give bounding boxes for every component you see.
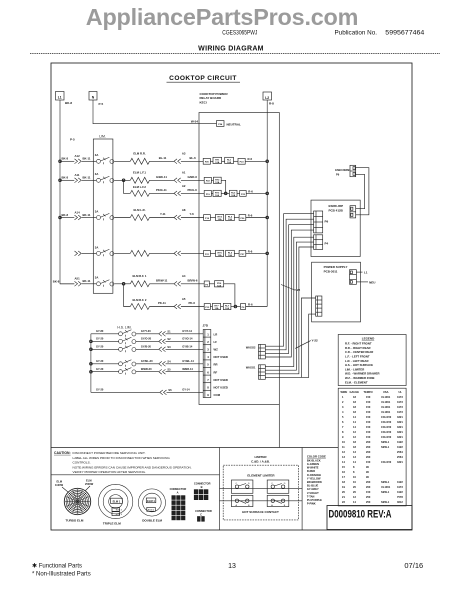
svg-text:T-TAN: T-TAN: [307, 494, 315, 498]
connector C: [195, 509, 212, 522]
svg-text:LEGEND: LEGEND: [362, 336, 375, 340]
svg-text:12A: 12A: [218, 254, 222, 257]
wire P9-3 to WAGO2-3: [265, 225, 313, 354]
svg-text:11: 11: [342, 445, 345, 449]
svg-text:ESEC30WB: ESEC30WB: [335, 168, 349, 172]
svg-text:Y-11: Y-11: [160, 212, 166, 216]
svg-text:14: 14: [353, 500, 356, 504]
caution area right border: [219, 448, 221, 531]
connector A: [170, 487, 187, 520]
svg-text:4: 4: [342, 410, 344, 414]
svg-text:ELM R.R.: ELM R.R.: [133, 152, 145, 156]
svg-text:BK-BLACK: BK-BLACK: [307, 458, 321, 462]
svg-text:R-6: R-6: [248, 214, 253, 218]
triple element: [98, 484, 132, 525]
svg-text:COLOR CODE: COLOR CODE: [307, 454, 326, 458]
svg-text:3173: 3173: [397, 410, 403, 414]
svg-text:S3: S3: [167, 345, 171, 349]
wire ESEC pin2 to EOC pin1: [356, 174, 365, 208]
svg-text:200: 200: [366, 485, 371, 489]
diagram border frame: [51, 63, 412, 530]
svg-text:GY-20: GY-20: [96, 388, 104, 392]
svg-text:NOTE:WIRING ERRORS CAN CAUSE I: NOTE:WIRING ERRORS CAN CAUSE IMPROPER AN…: [73, 465, 192, 469]
svg-text:150: 150: [366, 395, 371, 399]
svg-text:P9: P9: [325, 220, 329, 224]
row R.R.: wire: [60, 152, 203, 165]
relay board label: [200, 92, 228, 104]
svg-text:2: 2: [207, 340, 209, 344]
svg-text:POWER SUPPLY: POWER SUPPLY: [324, 265, 348, 269]
svg-text:P9: P9: [336, 172, 340, 176]
svg-text:3173: 3173: [397, 485, 403, 489]
limiter wire lower: [220, 500, 303, 502]
svg-text:CONTROLS.: CONTROLS.: [73, 461, 91, 465]
svg-text:* Non-Illustrated Parts: * Non-Illustrated Parts: [32, 572, 91, 578]
ESEC30WB connector: [335, 165, 355, 176]
svg-text:BK-11: BK-11: [83, 157, 91, 161]
svg-text:3A: 3A: [95, 209, 99, 213]
relay row R.R.: P20 RY1 RL1 P23: [203, 157, 267, 164]
svg-text:12A: 12A: [227, 161, 231, 164]
svg-text:DISCONNECT POWER BEFORE SERVIC: DISCONNECT POWER BEFORE SERVICING UNIT.: [73, 451, 146, 455]
wire P9-1 to WAGO2-1: [265, 214, 313, 347]
svg-text:CXL/150: CXL/150: [381, 420, 392, 424]
svg-text:✱ Functional Parts: ✱ Functional Parts: [32, 563, 82, 570]
relay row R.F.1: P2 RY6: [204, 281, 235, 307]
svg-text:PK/G-6: PK/G-6: [188, 188, 198, 192]
svg-text:200: 200: [366, 455, 371, 459]
svg-text:10: 10: [353, 475, 356, 479]
svg-text:3321: 3321: [397, 415, 403, 419]
svg-text:WAGO2: WAGO2: [246, 345, 256, 349]
strip top border: [51, 447, 338, 449]
svg-text:R-RED: R-RED: [307, 469, 315, 473]
svg-text:ELM L.R.: ELM L.R.: [134, 208, 146, 212]
svg-text:Y-6: Y-6: [190, 212, 195, 216]
svg-text:BK-11: BK-11: [83, 176, 91, 180]
svg-text:20: 20: [342, 490, 345, 494]
svg-text:P6: P6: [242, 307, 245, 309]
PS right connector: [350, 270, 357, 285]
svg-text:NOT USED: NOT USED: [214, 378, 228, 382]
svg-text:17: 17: [342, 475, 345, 479]
svg-text:WIRING DIAGRAM: WIRING DIAGRAM: [198, 46, 264, 53]
svg-text:S6: S6: [168, 388, 172, 392]
svg-text:GY/O-20: GY/O-20: [141, 337, 152, 341]
svg-text:AppliancePartsPros.com: AppliancePartsPros.com: [86, 4, 359, 30]
svg-text:21: 21: [342, 495, 345, 499]
element limiter dashed box: [223, 465, 298, 520]
svg-text:ELEMENT LIMITER: ELEMENT LIMITER: [247, 473, 275, 477]
svg-text:BL-6: BL-6: [190, 156, 197, 160]
wire ESEC pin1 to EOC pin2: [356, 168, 369, 215]
svg-text:ELM. - ELEMENT: ELM. - ELEMENT: [345, 380, 368, 384]
LIM box: [93, 135, 113, 294]
limiter switch box D: [267, 480, 289, 493]
svg-text:3122: 3122: [397, 445, 403, 449]
svg-text:12A: 12A: [228, 218, 232, 221]
relay row W.Z.: P21 RY5 RL5 P27: [204, 249, 268, 257]
svg-text:LF: LF: [214, 340, 218, 344]
svg-text:G-GREEN: G-GREEN: [307, 462, 319, 466]
svg-text:13: 13: [228, 563, 236, 570]
limiter switch box B: [267, 495, 289, 507]
svg-text:BR/W-11: BR/W-11: [156, 279, 168, 283]
svg-text:N: N: [92, 96, 95, 100]
terminal L2: [263, 92, 274, 106]
svg-text:UL1001: UL1001: [381, 410, 391, 414]
svg-text:3321: 3321: [397, 425, 403, 429]
GY bus: [90, 334, 93, 393]
svg-text:150: 150: [366, 415, 371, 419]
svg-text:R-6: R-6: [248, 249, 253, 253]
caution text divider: [51, 474, 220, 476]
svg-text:ELM 2: ELM 2: [116, 510, 123, 512]
svg-text:ELM L.F.2: ELM L.F.2: [133, 185, 146, 189]
svg-text:3321: 3321: [397, 460, 403, 464]
svg-text:DOUBLE ELM: DOUBLE ELM: [142, 519, 162, 523]
svg-text:14: 14: [342, 460, 345, 464]
svg-text:W-WHITE: W-WHITE: [307, 466, 319, 470]
svg-text:16: 16: [342, 470, 345, 474]
svg-text:KECI: KECI: [200, 100, 207, 104]
power supply box: [312, 262, 361, 322]
svg-text:14: 14: [353, 460, 356, 464]
svg-text:RL4: RL4: [228, 216, 233, 219]
svg-text:4: 4: [207, 355, 209, 359]
svg-text:5: 5: [342, 415, 344, 419]
svg-text:HOT SURFACE CONTACT: HOT SURFACE CONTACT: [242, 510, 279, 514]
svg-text:3173: 3173: [397, 405, 403, 409]
svg-text:SEW-1: SEW-1: [381, 500, 390, 504]
svg-text:LR: LR: [214, 332, 218, 336]
svg-text:BL-BLUE: BL-BLUE: [307, 484, 319, 488]
svg-text:GY-14: GY-14: [182, 388, 190, 392]
svg-text:19: 19: [342, 485, 345, 489]
svg-text:150: 150: [366, 460, 371, 464]
svg-text:14: 14: [353, 425, 356, 429]
svg-text:A: A: [177, 491, 179, 495]
svg-text:90: 90: [366, 475, 369, 479]
svg-text:P18: P18: [205, 218, 210, 220]
svg-text:14: 14: [353, 415, 356, 419]
limiter wire upper: [220, 488, 303, 490]
H.S. row S4: [91, 359, 203, 367]
svg-text:W/BR-20: W/BR-20: [141, 367, 152, 371]
H.S. row S3: [91, 345, 203, 353]
wire PS-1 stub: [301, 298, 315, 377]
svg-text:BK-8: BK-8: [65, 101, 72, 105]
svg-text:12A: 12A: [214, 307, 218, 310]
svg-text:18: 18: [353, 395, 356, 399]
svg-text:P13: P13: [205, 307, 210, 309]
svg-text:12: 12: [353, 495, 356, 499]
wire P4-1 to WAGO1-1: [265, 237, 313, 366]
svg-text:1100W: 1100W: [55, 483, 64, 487]
connector P24: [217, 121, 241, 127]
svg-text:ELM R.F. 1: ELM R.F. 1: [133, 274, 147, 278]
svg-text:18: 18: [342, 480, 345, 484]
svg-text:P4: P4: [325, 242, 329, 246]
svg-text:5995677464: 5995677464: [385, 30, 424, 37]
svg-text:C.&D. / A.&B.: C.&D. / A.&B.: [251, 459, 270, 463]
svg-text:6: 6: [342, 420, 344, 424]
svg-text:3173: 3173: [397, 395, 403, 399]
svg-text:J7D: J7D: [203, 324, 209, 328]
turbo element: [55, 479, 94, 523]
svg-text:10: 10: [353, 480, 356, 484]
svg-text:TRIPLE ELM: TRIPLE ELM: [103, 522, 121, 526]
wire P4-3 to WAGO1-3: [265, 247, 313, 374]
wire gauge table: [338, 388, 406, 506]
svg-text:RY4: RY4: [218, 216, 223, 219]
svg-text:SEW-1: SEW-1: [381, 445, 390, 449]
row L.R.: wire: [60, 208, 204, 221]
svg-text:GY/B-20: GY/B-20: [141, 345, 152, 349]
wire P9-2 to WAGO2-2: [265, 219, 313, 350]
svg-text:P2: P2: [205, 284, 208, 286]
svg-text:P24: P24: [218, 123, 223, 126]
limiter switch box A: [231, 495, 253, 507]
svg-text:PU-PURPLE: PU-PURPLE: [307, 498, 322, 502]
wire P9-4 to WAGO2-4: [265, 230, 313, 357]
revision box: [327, 506, 412, 530]
svg-text:200: 200: [366, 440, 371, 444]
L2 bus: [266, 100, 269, 307]
svg-text:P-PINK: P-PINK: [307, 502, 316, 506]
svg-text:P26: P26: [240, 218, 245, 220]
svg-text:BL-11: BL-11: [159, 156, 167, 160]
svg-text:GY-20: GY-20: [96, 337, 104, 341]
svg-text:L1: L1: [58, 96, 62, 100]
svg-text:A51: A51: [75, 277, 81, 281]
wire to L1: [356, 271, 367, 275]
neutral wire: [93, 100, 217, 124]
svg-text:3612: 3612: [397, 500, 403, 504]
node Y-22 upper: [281, 285, 301, 292]
svg-text:P-5: P-5: [70, 138, 75, 142]
svg-text:150: 150: [366, 405, 371, 409]
svg-text:22: 22: [342, 500, 345, 504]
svg-text:9: 9: [342, 435, 344, 439]
svg-text:12A: 12A: [217, 284, 221, 287]
svg-text:B: B: [201, 485, 203, 489]
svg-text:LIM.: LIM.: [99, 135, 106, 139]
svg-text:D: D: [284, 483, 286, 485]
svg-text:VERIFY PROPER OPERATION AFTER: VERIFY PROPER OPERATION AFTER SERVICING.: [73, 470, 147, 474]
row R.F.1: wire: [53, 274, 204, 287]
svg-text:P22: P22: [206, 181, 211, 183]
color code divider: [301, 448, 303, 531]
svg-text:BR-BROWN: BR-BROWN: [307, 480, 322, 484]
H.S. row S5: [91, 367, 203, 375]
svg-text:7578: 7578: [397, 495, 403, 499]
svg-text:15: 15: [342, 465, 345, 469]
svg-text:V-VIOLET: V-VIOLET: [307, 491, 319, 495]
svg-text:S5: S5: [167, 367, 171, 371]
svg-text:PK/G-11: PK/G-11: [156, 188, 167, 192]
svg-text:TURBO ELM: TURBO ELM: [66, 519, 84, 523]
svg-text:P19: P19: [206, 194, 211, 196]
svg-text:07/16: 07/16: [404, 561, 423, 570]
svg-text:G/BK-11: G/BK-11: [156, 175, 167, 179]
svg-text:P27: P27: [240, 254, 245, 256]
svg-text:NEUTRAL: NEUTRAL: [227, 123, 241, 127]
svg-text:GY/Y-14: GY/Y-14: [182, 329, 192, 333]
header rule: [30, 53, 440, 55]
caution note: [54, 451, 192, 474]
svg-text:3A: 3A: [95, 276, 99, 280]
svg-text:12: 12: [353, 435, 356, 439]
svg-text:L1: L1: [364, 271, 368, 275]
svg-text:UL: UL: [399, 390, 403, 394]
svg-text:12: 12: [342, 450, 345, 454]
svg-text:GY/Y-20: GY/Y-20: [141, 329, 151, 333]
svg-text:18: 18: [353, 405, 356, 409]
svg-text:O-ORANGE: O-ORANGE: [307, 473, 322, 477]
svg-text:9: 9: [207, 393, 209, 397]
svg-text:GY/BL-20: GY/BL-20: [141, 359, 153, 363]
svg-text:90: 90: [366, 465, 369, 469]
svg-text:8: 8: [207, 386, 209, 390]
svg-text:SEW-1: SEW-1: [381, 440, 390, 444]
svg-text:PCB-3011: PCB-3011: [324, 270, 338, 274]
svg-text:12A: 12A: [228, 254, 232, 257]
relay board box: [199, 113, 279, 405]
limiter section title: [251, 455, 270, 463]
svg-text:3: 3: [342, 405, 344, 409]
svg-text:ELM 2: ELM 2: [148, 510, 155, 512]
svg-text:150: 150: [366, 425, 371, 429]
svg-text:3A: 3A: [95, 172, 99, 176]
svg-text:C: C: [200, 512, 202, 516]
svg-text:R-6: R-6: [248, 189, 253, 193]
EOC board box: [311, 200, 360, 256]
svg-text:150: 150: [366, 420, 371, 424]
svg-text:GY-80: GY-80: [96, 329, 104, 333]
svg-text:18: 18: [353, 445, 356, 449]
svg-text:CONNECTOR: CONNECTOR: [194, 482, 211, 486]
svg-text:200: 200: [366, 445, 371, 449]
svg-text:CAUTION:: CAUTION:: [54, 451, 71, 455]
svg-text:A2: A2: [182, 184, 186, 188]
svg-text:COOKTOP CIRCUIT: COOKTOP CIRCUIT: [169, 75, 237, 82]
svg-text:Y-22: Y-22: [312, 339, 319, 343]
svg-text:BK-8: BK-8: [62, 213, 69, 217]
connector WAGO2: [246, 344, 265, 359]
svg-text:S2: S2: [167, 337, 171, 341]
svg-text:3A: 3A: [95, 245, 99, 249]
svg-text:P23: P23: [240, 162, 245, 164]
svg-text:RR: RR: [214, 363, 218, 367]
svg-text:W-54: W-54: [191, 119, 198, 123]
svg-text:12A: 12A: [218, 218, 222, 221]
row L.F.2: wire: [124, 180, 205, 196]
svg-text:D: D: [248, 483, 250, 485]
svg-text:150: 150: [366, 410, 371, 414]
svg-text:CXL/150: CXL/150: [381, 435, 392, 439]
svg-text:13: 13: [342, 455, 345, 459]
svg-text:5: 5: [207, 363, 209, 367]
svg-text:GY-20: GY-20: [96, 345, 104, 349]
svg-text:ELM 1: ELM 1: [147, 499, 155, 503]
svg-text:3321: 3321: [397, 420, 403, 424]
svg-text:18: 18: [353, 400, 356, 404]
svg-text:Publication No.: Publication No.: [335, 30, 378, 37]
svg-text:Y-YELLOW: Y-YELLOW: [307, 476, 321, 480]
svg-text:12A: 12A: [215, 181, 219, 184]
svg-text:8: 8: [353, 470, 355, 474]
svg-text:W/BR-14: W/BR-14: [182, 367, 193, 371]
svg-text:GY-20: GY-20: [96, 367, 104, 371]
svg-text:12A: 12A: [231, 194, 235, 197]
svg-text:A14: A14: [75, 210, 81, 214]
svg-text:20: 20: [353, 485, 356, 489]
svg-text:150: 150: [366, 430, 371, 434]
svg-text:TEMP.C: TEMP.C: [364, 390, 374, 394]
svg-text:GY-GREY: GY-GREY: [307, 487, 319, 491]
svg-text:H.S. LIM.: H.S. LIM.: [117, 325, 131, 329]
svg-text:8: 8: [342, 430, 344, 434]
svg-text:6: 6: [207, 370, 209, 374]
svg-text:ELM L.F.1: ELM L.F.1: [133, 171, 146, 175]
node Y-22 lower: [295, 339, 318, 349]
svg-text:2: 2: [342, 400, 344, 404]
PS bottom connector: [316, 296, 322, 316]
limiter switch box C: [231, 480, 253, 493]
svg-text:13: 13: [353, 455, 356, 459]
svg-text:150: 150: [366, 435, 371, 439]
svg-text:WAGO1: WAGO1: [246, 366, 256, 370]
svg-text:PK-11: PK-11: [158, 301, 166, 305]
svg-text:3173: 3173: [397, 400, 403, 404]
svg-text:3: 3: [207, 348, 209, 352]
svg-text:UL1001: UL1001: [381, 405, 391, 409]
svg-text:12A: 12A: [215, 161, 219, 164]
EOC connector P9: [314, 211, 329, 233]
svg-text:ELM R.F. 2: ELM R.F. 2: [133, 298, 147, 302]
relay row R.F.2: P13 RY7 RL7 P6: [204, 303, 267, 311]
svg-text:2564: 2564: [397, 455, 403, 459]
L1 bus: [59, 100, 75, 284]
svg-text:R-8: R-8: [269, 102, 274, 106]
svg-text:NOT USED: NOT USED: [214, 355, 228, 359]
svg-text:A1: A1: [182, 171, 186, 175]
svg-text:3122: 3122: [397, 440, 403, 444]
row L.F.1: wire: [60, 171, 204, 184]
svg-text:LABEL ALL WIRES PRIOR TO DISCO: LABEL ALL WIRES PRIOR TO DISCONNECTION W…: [73, 456, 171, 460]
svg-text:PK-6: PK-6: [189, 301, 196, 305]
svg-text:2564: 2564: [397, 450, 403, 454]
svg-text:UL1001: UL1001: [381, 395, 391, 399]
svg-text:RF: RF: [214, 370, 218, 374]
H.S. row S6: [91, 388, 203, 395]
svg-text:WIRE: WIRE: [341, 390, 348, 394]
J7D pin labels: [214, 332, 228, 397]
svg-text:BK-11: BK-11: [83, 213, 91, 217]
svg-text:BK-8: BK-8: [62, 157, 69, 161]
svg-text:1: 1: [207, 332, 209, 336]
svg-text:NOT USED: NOT USED: [214, 386, 228, 390]
svg-text:P21: P21: [205, 254, 210, 256]
svg-text:150: 150: [366, 490, 371, 494]
svg-text:18: 18: [353, 410, 356, 414]
svg-text:UL1001: UL1001: [381, 485, 391, 489]
relay row L.F.2: P19 RY3 P25: [204, 189, 267, 197]
svg-text:2500W: 2500W: [85, 482, 94, 486]
svg-text:R-6: R-6: [248, 157, 253, 161]
H.S. row S2: [91, 337, 203, 345]
